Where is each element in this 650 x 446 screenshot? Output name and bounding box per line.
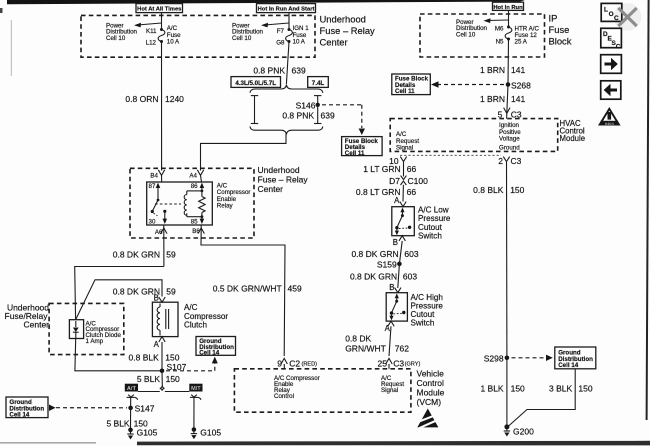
connector D7 C100: [389, 176, 428, 186]
svg-text:S268: S268: [511, 80, 531, 90]
pin 2 C3 (HVAC): [498, 156, 521, 166]
underhood fuse/relay center dashed box (diode): [49, 303, 124, 354]
UI icon: next arrow button: [601, 55, 622, 74]
label: Ground Distribution Cell 14 (box, mid): [196, 337, 236, 357]
switch S: A/C High Pressure Cutout Switch: [386, 293, 407, 321]
label: Hot In Run: [493, 2, 524, 11]
label: 3 BLK 150: [549, 383, 593, 393]
UI icon: prev arrow button: [601, 81, 621, 99]
label: 1 BRN 141 (2): [480, 94, 526, 104]
pin 10 (HVAC): [389, 156, 407, 166]
svg-text:150: 150: [166, 374, 180, 384]
clutch L: A/C Compressor Clutch box: [152, 302, 178, 336]
svg-text:86: 86: [191, 183, 198, 190]
fuse F: HTR A/C Fuse 12 25A: [505, 26, 512, 41]
svg-text:Switch: Switch: [418, 231, 442, 240]
connector pin 9 C2 (RED): [277, 358, 317, 368]
svg-text:M/T: M/T: [191, 386, 201, 392]
svg-text:(GRY): (GRY): [405, 361, 421, 367]
label: 5 BLK 150: [137, 374, 180, 384]
relay coil (inductor): [184, 191, 202, 217]
power distribution arrow (left fuse): [134, 23, 162, 28]
svg-text:B4: B4: [150, 173, 158, 180]
wire: diode bottom to S107 ground run: [75, 339, 162, 371]
diode CR: A/C Compressor Clutch Diode box: [69, 320, 83, 339]
svg-text:0.8 BLK: 0.8 BLK: [473, 185, 504, 195]
wire: diode top to clutch B (0.8 DK GRN 59): [76, 280, 162, 320]
svg-text:Signal: Signal: [396, 144, 413, 151]
svg-text:59: 59: [166, 249, 176, 259]
svg-text:A: A: [385, 324, 391, 333]
svg-text:Relay: Relay: [217, 202, 234, 209]
svg-text:Hot In Run And Start: Hot In Run And Start: [258, 7, 315, 13]
svg-text:D7: D7: [389, 176, 400, 186]
label: A/C Compressor Enable Relay: [217, 183, 251, 210]
dashed ref arrow from S268 to fuse block details: [431, 81, 504, 87]
svg-text:5 BLK: 5 BLK: [106, 419, 129, 429]
pin A (clutch): [154, 337, 166, 349]
svg-text:639: 639: [292, 65, 306, 75]
label: 5 BLK 150 (2): [106, 419, 148, 429]
wire: 5 BLK 150 below S107: [161, 371, 163, 385]
svg-text:B: B: [154, 293, 159, 302]
svg-text:B: B: [389, 283, 394, 292]
svg-text:A4: A4: [189, 173, 197, 180]
wire: 5 BLK 150 S147 to G105: [130, 408, 132, 430]
svg-text:Cell 14: Cell 14: [199, 350, 220, 357]
svg-text:0.8 PNK: 0.8 PNK: [253, 65, 285, 75]
svg-text:G8: G8: [276, 39, 285, 46]
svg-text:Underhood: Underhood: [258, 165, 300, 175]
svg-text:2: 2: [498, 156, 503, 166]
svg-text:(VCM): (VCM): [417, 397, 442, 407]
svg-text:S298: S298: [484, 354, 504, 364]
svg-text:S159: S159: [377, 260, 397, 270]
power distribution arrow (IGN1 fuse): [261, 23, 289, 28]
svg-text:459: 459: [288, 284, 302, 294]
pin 5 C3 (HVAC): [498, 108, 522, 120]
UI icon: LOC button: [601, 3, 622, 22]
label: A/T box: [125, 384, 138, 392]
wire: 0.8 DK GRN 603 to high pressure switch: [398, 264, 400, 288]
svg-text:A6: A6: [155, 229, 163, 236]
svg-text:B6: B6: [192, 228, 200, 235]
label: 7.4L box: [308, 77, 329, 88]
wire: 0.5 DK GRN/WHT 459 from B6 to VCM pin 9: [201, 228, 285, 356]
UI icon: close X: [618, 8, 636, 26]
svg-text:5 BLK: 5 BLK: [137, 374, 160, 384]
svg-text:Fuse – Relay: Fuse – Relay: [258, 174, 309, 184]
wire: 3 BLK 150 from ground distribution to G200: [508, 369, 575, 427]
wire: 0.8 DK GRN/WHT 762 to VCM pin 25: [389, 326, 391, 356]
svg-text:Cell 14: Cell 14: [558, 362, 579, 369]
relay 86 terminal: [200, 183, 205, 193]
svg-text:Block: Block: [549, 36, 572, 47]
svg-text:0404: 0404: [605, 121, 615, 126]
wire stubs into relay box: [161, 175, 163, 182]
pin bracket below A/T: [127, 395, 138, 408]
label: Underhood Fuse - Relay Center (top right of box): [320, 14, 376, 48]
split brace bottom (engine branches merge): [250, 126, 323, 134]
svg-text:Cell 14: Cell 14: [9, 411, 30, 418]
label: 1 BLK 150: [480, 383, 525, 393]
svg-text:603: 603: [404, 249, 418, 259]
UI icon: caution triangle: [598, 107, 621, 126]
ground G105 (right): [191, 427, 222, 439]
svg-text:Cell 10: Cell 10: [456, 31, 476, 38]
svg-text:1 LT GRN: 1 LT GRN: [363, 164, 400, 174]
relay K: A/C Compressor Enable Relay box: [147, 182, 213, 225]
wire: merged PNK to relay A4: [201, 134, 287, 171]
dashed ref arrow from S146 to fuse block details: [322, 105, 365, 135]
underhood fuse-relay center dashed box (relay): [130, 168, 254, 238]
relay coil parallel resistor: [199, 191, 205, 218]
pin B4 (relay): [150, 170, 164, 180]
relay 85 terminal arrow: [200, 217, 205, 224]
wire: HVAC pin 10 to C100: [403, 162, 405, 177]
node S146: [296, 100, 320, 110]
relay actuation dotted link: [155, 203, 181, 205]
wire: from Hot At All Times to A/C fuse: [161, 13, 163, 29]
label: 0.8 BLK 150 (right): [473, 185, 525, 195]
label: 0.5 DK GRN/WHT 459: [213, 284, 302, 294]
label: 4.3L/5.0L/5.7L box: [231, 77, 281, 88]
svg-text:10 A: 10 A: [167, 38, 180, 45]
label: HVAC Control Module: [560, 119, 586, 143]
label: 0.8 PNK 639: [253, 65, 306, 75]
fuse F: IGN 1 Fuse 10A: [286, 28, 293, 43]
label: HTR A/C Fuse 12 25 A: [515, 26, 540, 46]
pin A (low pressure switch): [394, 196, 406, 207]
underhood fuse-relay center dashed box (top): [81, 15, 315, 57]
pin A4 (relay): [189, 170, 203, 180]
svg-text:Voltage: Voltage: [499, 136, 520, 143]
svg-text:0.8 DK GRN: 0.8 DK GRN: [350, 271, 397, 281]
svg-text:IP: IP: [549, 13, 558, 24]
label: 0.8 DK GRN/WHT 762: [345, 334, 409, 354]
svg-text:N5: N5: [496, 38, 504, 45]
label: M/T box: [189, 384, 202, 392]
svg-text:1 BLK: 1 BLK: [480, 383, 503, 393]
svg-text:150: 150: [510, 185, 524, 195]
svg-text:59: 59: [166, 287, 176, 297]
svg-text:Cell 10: Cell 10: [106, 35, 126, 42]
svg-text:0.8 DK: 0.8 DK: [345, 334, 371, 344]
fuse F: A/C Fuse 10A: [158, 28, 165, 43]
node S268: [506, 80, 531, 90]
label: Ignition Positive Voltage: [499, 122, 521, 143]
label: Hot In Run And Start: [257, 4, 316, 13]
svg-text:639: 639: [321, 111, 335, 121]
svg-text:C2: C2: [289, 358, 300, 368]
svg-text:1 BRN: 1 BRN: [480, 94, 505, 104]
svg-text:A: A: [394, 196, 400, 205]
svg-text:K11: K11: [146, 28, 157, 35]
svg-text:G105: G105: [200, 427, 221, 437]
svg-text:S147: S147: [135, 404, 155, 414]
svg-text:150: 150: [578, 383, 592, 393]
svg-text:Underhood: Underhood: [320, 14, 366, 25]
svg-text:B: B: [393, 238, 398, 247]
svg-text:Hot In Run: Hot In Run: [493, 5, 523, 11]
connector pin 25 C3 (GRY): [378, 358, 421, 368]
wire: A6 down (0.8 DK GRN 59): [163, 228, 165, 267]
node S107: [160, 362, 187, 373]
wire: jog left to diode branch: [75, 267, 164, 320]
svg-text:A/T: A/T: [127, 386, 137, 392]
svg-text:0.8 DK GRN: 0.8 DK GRN: [113, 249, 160, 259]
label: A/C Low Pressure Cutout Switch: [418, 206, 451, 241]
label: Ground Distribution Cell 14 (box, left): [6, 397, 48, 418]
svg-text:150: 150: [511, 383, 525, 393]
label: A/C High Pressure Cutout Switch: [411, 293, 444, 328]
wire: 1 BRN 141 from S268 to HVAC pin 5: [507, 85, 508, 119]
label: 0.8 DK GRN 59 (1): [113, 249, 176, 259]
label: A/C Fuse 10 A: [167, 25, 181, 45]
svg-text:0.8 DK GRN: 0.8 DK GRN: [351, 249, 398, 259]
svg-text:7.4L: 7.4L: [312, 80, 325, 87]
wire: 0.8 ORN 1240 down to relay B4: [161, 42, 163, 171]
connector bracket (7.4L branch): [314, 96, 321, 124]
pin B (clutch): [154, 293, 166, 302]
wire: 1 BRN 141 to S268: [507, 39, 510, 85]
label: Fuse Block Details Cell 11 (box, lower): [342, 137, 383, 157]
svg-text:87: 87: [149, 183, 156, 190]
svg-text:0.5 DK GRN/WHT: 0.5 DK GRN/WHT: [213, 284, 282, 294]
svg-text:0.8 PNK: 0.8 PNK: [282, 111, 314, 121]
label: 1 BRN 141: [480, 65, 526, 75]
svg-text:9: 9: [277, 358, 282, 368]
svg-text:Clutch: Clutch: [184, 320, 207, 329]
UI icon: close halo: [614, 3, 642, 31]
dashed ref arrow from S107 to ground distribution: [166, 357, 218, 371]
label: A/C Compressor Clutch: [184, 303, 228, 329]
ground G105 (left): [127, 427, 157, 439]
connector bracket (4.3/5.0/5.7L branch): [251, 96, 258, 124]
svg-text:30: 30: [149, 219, 156, 226]
svg-text:C3: C3: [393, 358, 404, 368]
svg-text:Hot At All Times: Hot At All Times: [137, 7, 181, 13]
svg-text:C: C: [616, 43, 621, 50]
dashed ref arrow from S298 to ground distribution: [512, 355, 553, 361]
svg-text:0.8 ORN: 0.8 ORN: [125, 94, 158, 104]
relay 30 contact stem: [154, 210, 168, 224]
pin B (high pressure switch): [389, 283, 401, 293]
label: A/C Compressor Enable Relay Control: [274, 375, 320, 400]
label: 0.8 DK GRN 59 (2): [113, 287, 176, 297]
svg-text:Control: Control: [274, 393, 294, 400]
label: Hot At All Times: [136, 4, 183, 13]
label: A/C Request Signal (HVAC): [396, 131, 419, 151]
label: 0.8 BLK 150: [129, 353, 180, 363]
wire: 0.8 DK GRN 603 to S159: [399, 241, 402, 264]
svg-text:G200: G200: [513, 426, 534, 436]
faint inner dashed line under HVAC box: [400, 154, 501, 156]
svg-text:66: 66: [407, 164, 417, 174]
label: Power Distribution Cell 10 (left): [106, 22, 138, 42]
UI icon: DESC button: [601, 28, 622, 50]
pin bracket below M/T: [190, 395, 201, 430]
split brace top (engine branches): [250, 85, 323, 93]
svg-text:1240: 1240: [165, 94, 184, 104]
label: IP Fuse Block: [549, 13, 572, 47]
node S298: [484, 354, 509, 364]
svg-text:1 BRN: 1 BRN: [480, 65, 505, 75]
A/T - M/T split brace: [138, 385, 189, 392]
label: IGN 1 Fuse 10 A: [293, 25, 310, 45]
svg-text:C3: C3: [511, 156, 522, 166]
switch S: A/C Low Pressure Cutout Switch: [392, 207, 415, 236]
label: A/C Compressor Clutch Diode 1 Amp: [86, 320, 122, 344]
wire: from Hot In Run to HTR A/C fuse: [508, 10, 510, 26]
svg-text:85: 85: [191, 219, 198, 226]
wire: 0.8 BLK 150 HVAC pin 2 to S298: [506, 162, 508, 358]
svg-text:3 BLK: 3 BLK: [549, 383, 572, 393]
label: 0.8 LT GRN 66: [356, 187, 416, 197]
svg-text:25 A: 25 A: [515, 39, 528, 46]
pin A6 (relay out): [155, 225, 167, 236]
pin B6 (relay out): [192, 225, 204, 235]
label: Power Distribution Cell 10 (IP): [456, 19, 488, 39]
label: 0.8 PNK 639 (7.4L branch): [282, 111, 335, 121]
svg-text:0.8 BLK: 0.8 BLK: [129, 353, 160, 363]
svg-text:Center: Center: [23, 320, 49, 330]
pin B (low pressure switch): [393, 236, 406, 248]
svg-text:M6: M6: [495, 26, 504, 33]
svg-text:66: 66: [407, 187, 417, 197]
svg-text:Cell 10: Cell 10: [232, 35, 252, 42]
svg-text:141: 141: [511, 94, 525, 104]
ESD warning triangle (VCM): [416, 409, 439, 429]
label: Power Distribution Cell 10 (IGN1): [232, 22, 264, 42]
svg-text:603: 603: [403, 271, 417, 281]
label: Fuse Block Details Cell 11 (box, upper): [392, 74, 431, 95]
VCM dashed box: [234, 369, 411, 412]
svg-text:762: 762: [395, 343, 409, 353]
wire: from Hot In Run And Start to IGN 1 fuse: [288, 13, 290, 29]
pin A (high pressure switch): [385, 321, 395, 333]
wire: 0.8 PNK 639 down to engine split: [286, 42, 289, 85]
node S147: [128, 404, 154, 414]
svg-text:Signal: Signal: [381, 387, 398, 394]
dashed ref line from ground distribution to S147: [49, 405, 127, 412]
svg-text:Fuse – Relay: Fuse – Relay: [320, 25, 376, 36]
power distribution arrow (IP fuse): [484, 18, 509, 23]
label: 0.8 ORN 1240: [125, 94, 184, 104]
svg-text:25: 25: [378, 358, 388, 368]
wire: 0.8 BLK 150 clutch to S107: [161, 342, 163, 371]
svg-text:Module: Module: [560, 134, 586, 143]
label: A/C Request Signal (VCM): [381, 375, 404, 394]
svg-text:Fuse: Fuse: [549, 24, 570, 35]
svg-text:L12: L12: [146, 39, 157, 46]
ground G200: [504, 424, 534, 436]
svg-text:(RED): (RED): [302, 361, 318, 367]
label: Vehicle Control Module (VCM): [417, 369, 445, 407]
svg-text:Cell 11: Cell 11: [395, 88, 415, 95]
svg-text:C: C: [614, 15, 619, 22]
svg-text:Center: Center: [320, 37, 348, 48]
IP fuse block dashed box: [420, 14, 545, 57]
svg-text:GRN/WHT: GRN/WHT: [345, 343, 386, 353]
label: Underhood Fuse - Relay Center (relay box): [258, 165, 309, 194]
svg-text:G105: G105: [137, 427, 158, 437]
wire: 1 BLK 150 S298 to G200: [506, 358, 508, 427]
svg-text:S146: S146: [296, 100, 316, 110]
label: 0.8 DK GRN 603 (2): [350, 271, 417, 281]
svg-text:Switch: Switch: [411, 319, 435, 328]
HVAC control module dashed box: [390, 119, 558, 152]
svg-text:Ground: Ground: [499, 145, 520, 152]
svg-text:O: O: [609, 11, 614, 18]
relay switch blade: [151, 183, 161, 213]
node S159: [377, 260, 402, 270]
label: 1 LT GRN 66: [363, 164, 416, 174]
svg-text:F7: F7: [277, 28, 285, 35]
label: 0.8 DK GRN 603: [351, 249, 418, 259]
wire: 0.8 LT GRN 66 to low pressure switch: [402, 185, 404, 202]
svg-text:4.3L/5.0L/5.7L: 4.3L/5.0L/5.7L: [235, 80, 276, 87]
svg-text:1 Amp: 1 Amp: [86, 338, 104, 345]
svg-text:141: 141: [511, 65, 525, 75]
svg-text:Center: Center: [258, 184, 284, 194]
svg-text:L: L: [604, 6, 608, 13]
label: Underhood Fuse/Relay Center: [5, 302, 50, 329]
label: Ground Distribution Cell 14 (box, right): [555, 347, 596, 369]
svg-text:10 A: 10 A: [293, 38, 306, 45]
svg-text:C100: C100: [408, 176, 429, 186]
svg-text:Cell 11: Cell 11: [345, 150, 365, 157]
